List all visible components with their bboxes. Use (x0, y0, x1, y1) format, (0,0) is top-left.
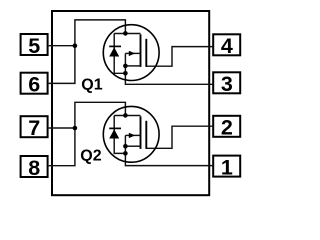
svg-text:1: 1 (221, 155, 233, 179)
svg-text:8: 8 (28, 156, 40, 180)
svg-text:Q1: Q1 (81, 77, 102, 94)
svg-text:5: 5 (28, 34, 40, 58)
svg-text:4: 4 (221, 34, 233, 58)
svg-text:6: 6 (28, 73, 40, 97)
svg-text:2: 2 (221, 116, 233, 140)
svg-text:Q2: Q2 (80, 148, 101, 165)
svg-text:3: 3 (221, 72, 233, 96)
svg-text:7: 7 (28, 116, 40, 140)
